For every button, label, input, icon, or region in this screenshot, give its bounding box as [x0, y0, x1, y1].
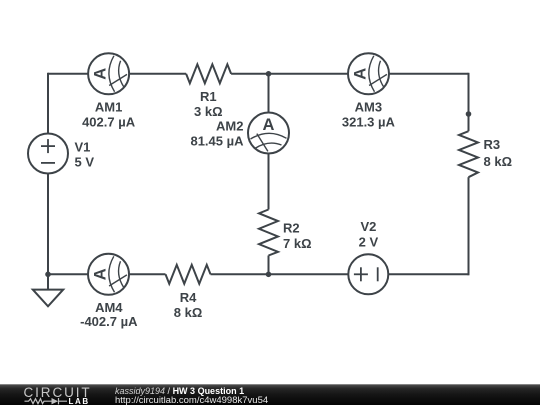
wire right rail lower (R3 bottom to bottom-right corner) [468, 177, 470, 275]
svg-text:8 kΩ: 8 kΩ [174, 305, 203, 320]
svg-text:R4: R4 [180, 290, 197, 305]
svg-text:AM3: AM3 [355, 100, 382, 115]
CircuitLab logo [23, 386, 103, 411]
svg-text:LAB: LAB [69, 397, 90, 406]
svg-text:AM4: AM4 [95, 300, 123, 315]
ammeter AM1 [88, 53, 129, 94]
svg-text:5 V: 5 V [75, 155, 95, 170]
ammeter AM4 [88, 254, 129, 295]
svg-text:V2: V2 [360, 219, 376, 234]
svg-text:AM2: AM2 [216, 119, 243, 134]
svg-text:A: A [92, 68, 110, 80]
ground [33, 274, 63, 306]
wire top rail left (V1 top to R1 left, passes under AM1) [48, 73, 186, 75]
voltage source V2 [348, 254, 388, 294]
ground node junction dot [45, 272, 51, 278]
svg-text:7 kΩ: 7 kΩ [283, 236, 312, 251]
svg-text:R3: R3 [484, 137, 501, 152]
svg-text:R2: R2 [283, 221, 300, 236]
svg-text:V1: V1 [75, 140, 91, 155]
resistor R2 [259, 210, 278, 256]
voltage source V1 [28, 134, 68, 174]
ammeter AM2 [248, 113, 289, 154]
wire middle column upper (node A down to R2 top, passes under AM2) [268, 74, 270, 210]
svg-text:-402.7 µA: -402.7 µA [80, 314, 138, 329]
svg-text:AM1: AM1 [95, 100, 122, 115]
svg-text:81.45 µA: 81.45 µA [190, 134, 244, 149]
wire bottom rail right (corner to R4 right, passes under V2) [211, 273, 469, 275]
wire middle column lower (R2 bottom to node B) [268, 256, 270, 275]
svg-text:A: A [92, 268, 110, 280]
right rail junction dot [466, 111, 472, 117]
svg-text:402.7 µA: 402.7 µA [82, 115, 136, 130]
resistor R3 [459, 131, 478, 177]
svg-text:A: A [263, 116, 275, 134]
node B junction dot [266, 272, 272, 278]
svg-text:R1: R1 [200, 89, 217, 104]
node A junction dot [266, 71, 272, 77]
footer bar [0, 384, 540, 405]
wire bottom rail left (R4 left to ground node, passes under AM4) [48, 273, 166, 275]
svg-text:A: A [352, 68, 370, 80]
resistor R1 [186, 64, 231, 83]
wire right rail upper (corner down to R3 top) [468, 73, 470, 131]
wire left rail (ground node up to top-left corner, passes under V1) [47, 73, 49, 274]
svg-text:3 kΩ: 3 kΩ [194, 104, 223, 119]
svg-text:321.3 µA: 321.3 µA [342, 115, 396, 130]
ammeter AM3 [348, 53, 389, 94]
svg-text:8 kΩ: 8 kΩ [484, 154, 513, 169]
svg-text:2 V: 2 V [359, 235, 379, 250]
wire top rail right (R1 right to top-right corner, passes under AM3) [231, 73, 468, 75]
footer attribution text [115, 387, 244, 397]
resistor R4 [166, 265, 211, 284]
